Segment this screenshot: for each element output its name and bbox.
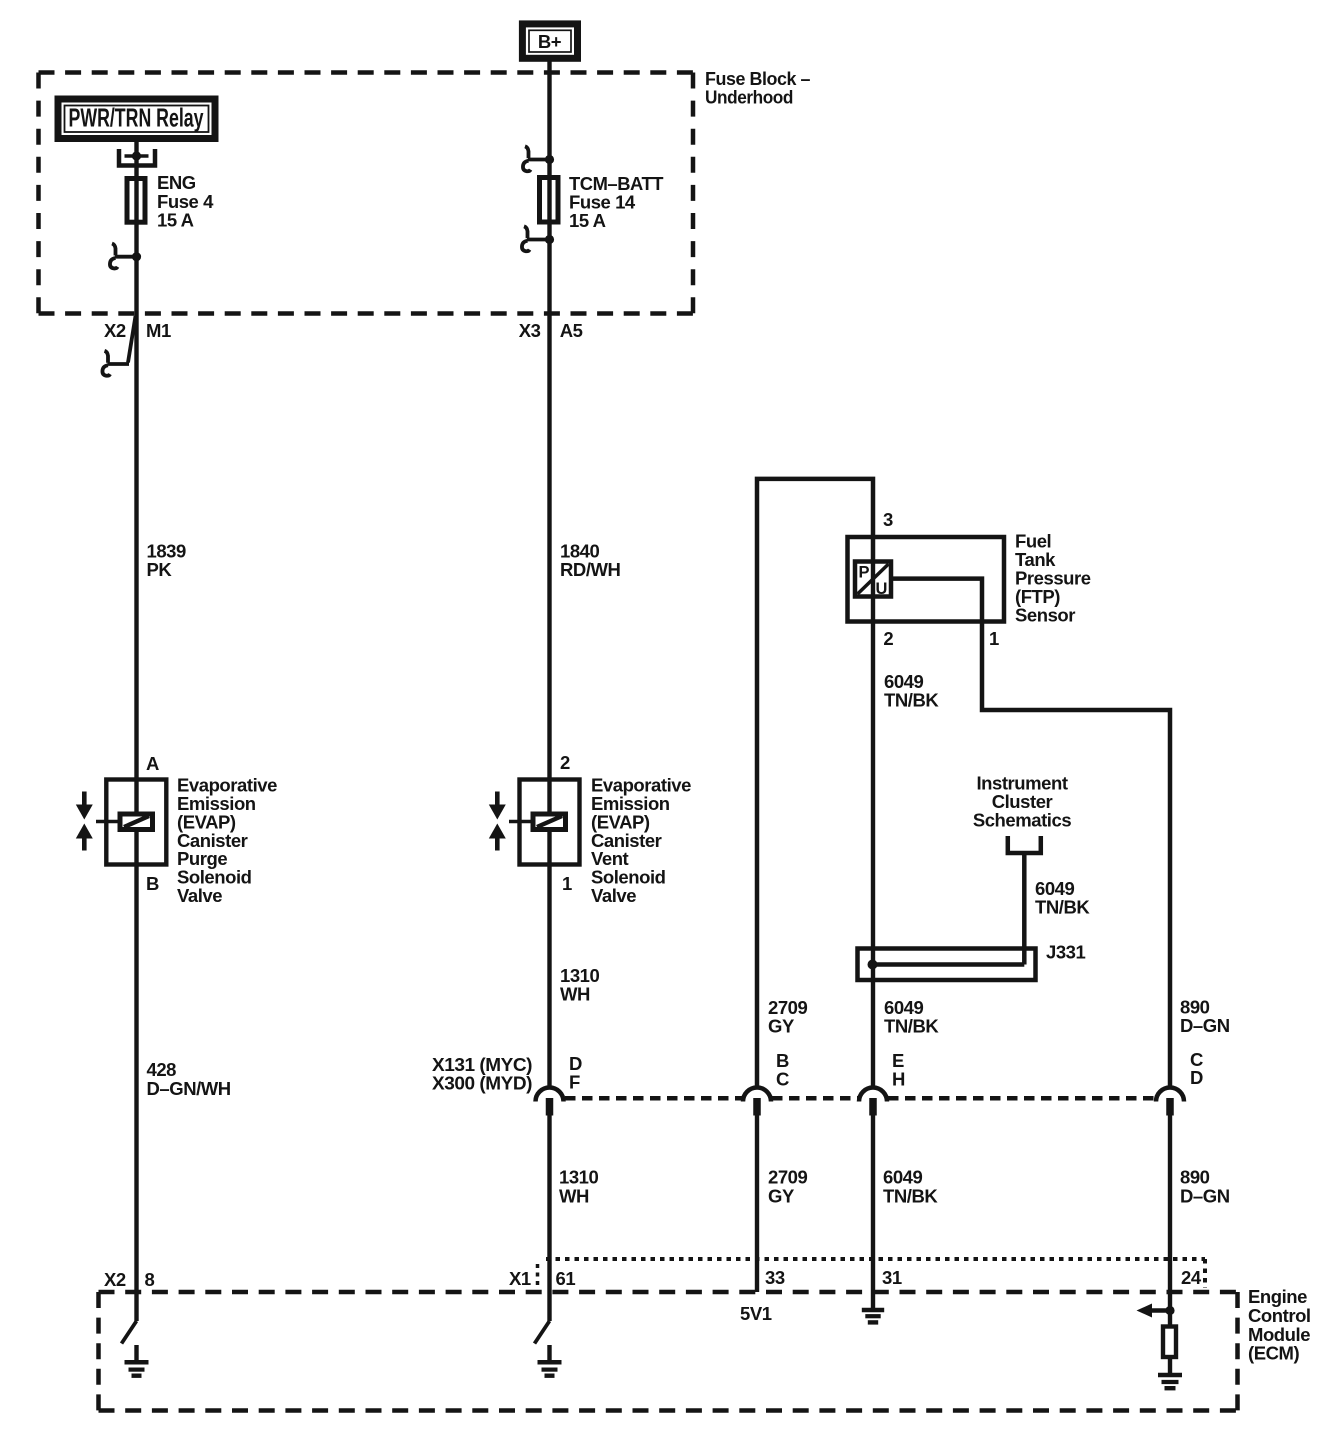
connector row dashed line: [565, 1096, 1155, 1101]
label X131 (MYC) X300 (MYD): [432, 1054, 532, 1094]
label 890 D-GN above connector: [1180, 997, 1230, 1037]
EVAP canister purge solenoid valve box: [106, 780, 166, 865]
X1 61 dotted separator: [536, 1264, 540, 1289]
svg-text:24: 24: [1181, 1267, 1202, 1288]
label 428 D-GN/WH: [147, 1059, 231, 1099]
ECM pin labels: [104, 1267, 1202, 1290]
svg-text:D–GN: D–GN: [1180, 1186, 1230, 1207]
J331 splice wire: [873, 962, 1025, 967]
pin 24 ground: [1158, 1375, 1182, 1388]
label X3 A5: [519, 320, 583, 341]
svg-text:61: 61: [556, 1268, 576, 1289]
wire B+ through TCM fuse to X3/A5: [547, 58, 551, 316]
ENG fuse top clip: [119, 149, 155, 166]
X2/M1 connector hook: [102, 351, 129, 376]
svg-text:3: 3: [883, 509, 893, 530]
svg-text:15 A: 15 A: [157, 210, 194, 231]
EVAP canister vent solenoid valve box: [520, 780, 580, 865]
connector arc B/C: [743, 1088, 771, 1102]
wire 890 D-GN lower: [1168, 1116, 1172, 1325]
fuse ENG Fuse 4: [127, 179, 145, 223]
J331 junction dot: [868, 960, 878, 970]
svg-text:5V1: 5V1: [740, 1303, 772, 1324]
label vent solenoid text: [591, 775, 691, 907]
TCM fuse top terminal hook: [523, 146, 550, 171]
svg-text:PWR/TRN Relay: PWR/TRN Relay: [69, 103, 204, 133]
connector pin letters: [569, 1049, 1203, 1093]
label 2709 GY lower: [768, 1167, 808, 1207]
X2/8 ECM diagonal: [122, 1321, 137, 1344]
svg-text:890: 890: [1180, 1167, 1210, 1188]
svg-text:31: 31: [882, 1267, 902, 1288]
FTP P/U transducer box: [855, 562, 891, 599]
label 2709 GY upper: [768, 997, 808, 1037]
svg-text:RD/WH: RD/WH: [560, 559, 621, 580]
svg-text:6049: 6049: [883, 1167, 923, 1188]
label Instrument Cluster Schematics: [973, 773, 1071, 831]
X2/M1 connector diagonal: [128, 316, 136, 363]
svg-text:U: U: [876, 580, 888, 598]
label Engine Control Module (ECM): [1248, 1286, 1311, 1364]
svg-text:PK: PK: [147, 559, 173, 580]
label ENG Fuse 4 15 A: [157, 172, 214, 231]
wire 6049 TN/BK lower: [871, 1116, 875, 1309]
svg-text:TN/BK: TN/BK: [884, 1016, 939, 1037]
TCM fuse bottom terminal hook: [522, 226, 550, 251]
label 890 D-GN lower: [1180, 1167, 1230, 1207]
svg-text:X3: X3: [519, 320, 541, 341]
svg-text:15 A: 15 A: [569, 210, 606, 231]
wire 1840 RD/WH through vent solenoid to connector D/F: [547, 316, 551, 1086]
svg-text:TN/BK: TN/BK: [1035, 897, 1090, 918]
svg-text:1: 1: [562, 873, 572, 894]
svg-text:Control: Control: [1248, 1305, 1311, 1326]
svg-text:(ECM): (ECM): [1248, 1343, 1299, 1364]
FTP sensor top feed wire: [757, 479, 873, 1086]
wire relay through ENG fuse to X2/M1: [134, 142, 138, 316]
pin 31 ground: [862, 1310, 884, 1322]
svg-text:Engine: Engine: [1248, 1286, 1307, 1307]
5V1 internal dotted line: [546, 1259, 1205, 1288]
svg-text:2709: 2709: [768, 1167, 808, 1188]
svg-text:B: B: [146, 873, 159, 894]
wire 2709 GY lower: [755, 1116, 759, 1293]
svg-text:1310: 1310: [559, 1167, 599, 1188]
instrument cluster off-page bracket: [1008, 836, 1041, 853]
svg-text:GY: GY: [768, 1186, 795, 1207]
svg-text:X1: X1: [509, 1268, 531, 1289]
fuse TCM-BATT Fuse 14: [540, 178, 559, 223]
svg-text:H: H: [892, 1069, 905, 1090]
connector arc E/H: [859, 1088, 887, 1102]
purge solenoid coil: [120, 814, 153, 830]
vent valve arrows: [489, 792, 533, 851]
wire 1839 PK / 428 D-GN/WH through purge solenoid to ECM pin 8: [134, 316, 138, 1321]
svg-text:TN/BK: TN/BK: [884, 690, 939, 711]
svg-text:428: 428: [147, 1059, 177, 1080]
svg-text:A5: A5: [560, 320, 583, 341]
purge valve arrows: [76, 792, 120, 851]
label 1839 PK: [147, 541, 187, 581]
label Fuse Block - Underhood: [705, 68, 810, 108]
svg-text:Valve: Valve: [177, 885, 222, 906]
ENG fuse bottom terminal hook: [110, 244, 137, 269]
X2/8 ground: [125, 1345, 149, 1376]
svg-text:F: F: [569, 1072, 580, 1093]
pin 24 resistor to ground wire: [1168, 1357, 1172, 1373]
label 6049 TN/BK upper: [884, 671, 939, 711]
FTP pin 2 wire down: [871, 559, 875, 1086]
svg-text:P: P: [859, 564, 870, 582]
svg-text:C: C: [776, 1069, 789, 1090]
svg-text:2: 2: [883, 628, 893, 649]
FTP pin 1 wire to 890: [891, 579, 1170, 1086]
svg-text:B+: B+: [538, 31, 562, 52]
svg-text:Underhood: Underhood: [705, 87, 793, 108]
wire 1310 WH lower: [547, 1116, 551, 1322]
X1/61 ground: [538, 1345, 562, 1376]
svg-text:2: 2: [560, 752, 570, 773]
svg-text:J331: J331: [1046, 942, 1086, 963]
svg-text:D–GN/WH: D–GN/WH: [147, 1078, 231, 1099]
pin 24 resistor: [1163, 1327, 1176, 1358]
label 1310 WH: [560, 965, 600, 1005]
label 6049 TN/BK above connector: [884, 997, 939, 1037]
vent solenoid coil: [533, 814, 566, 830]
svg-text:X300 (MYD): X300 (MYD): [432, 1073, 532, 1094]
svg-text:A: A: [146, 753, 159, 774]
connector arc D/F: [536, 1088, 564, 1102]
label Fuel Tank Pressure (FTP) Sensor: [1015, 531, 1091, 626]
label purge solenoid text: [177, 775, 277, 907]
connector arc C/D: [1156, 1088, 1184, 1102]
svg-text:Sensor: Sensor: [1015, 605, 1075, 626]
fuse block underhood dashed box: [39, 73, 694, 314]
svg-text:Schematics: Schematics: [973, 810, 1071, 831]
svg-text:ENG: ENG: [157, 172, 196, 193]
splice J331 box: [858, 949, 1036, 981]
B+ power symbol: [522, 24, 577, 58]
label X2 M1: [104, 320, 171, 341]
svg-text:8: 8: [145, 1269, 155, 1290]
svg-text:X2: X2: [104, 1269, 126, 1290]
svg-text:WH: WH: [559, 1186, 589, 1207]
label 6049 TN/BK cluster: [1035, 878, 1090, 918]
svg-text:D–GN: D–GN: [1180, 1015, 1230, 1036]
label 1310 WH lower: [559, 1167, 599, 1207]
svg-text:WH: WH: [560, 984, 590, 1005]
label 1840 RD/WH: [560, 541, 621, 581]
svg-text:1: 1: [989, 628, 999, 649]
label TCM-BATT Fuse 14 15 A: [569, 173, 664, 231]
wire cluster to J331: [1022, 853, 1027, 965]
ECM dashed box: [99, 1292, 1238, 1411]
svg-text:X2: X2: [104, 320, 126, 341]
label 6049 TN/BK lower: [883, 1167, 938, 1207]
pin 24 arrow: [1137, 1304, 1175, 1318]
svg-text:GY: GY: [768, 1016, 795, 1037]
fuel tank pressure sensor box: [848, 537, 1005, 622]
X1/61 ECM diagonal: [535, 1321, 550, 1344]
svg-text:33: 33: [765, 1267, 785, 1288]
svg-text:Valve: Valve: [591, 885, 636, 906]
PWR/TRN Relay box: [58, 99, 215, 139]
svg-text:D: D: [1190, 1067, 1203, 1088]
svg-text:M1: M1: [146, 320, 171, 341]
svg-text:TN/BK: TN/BK: [883, 1186, 938, 1207]
